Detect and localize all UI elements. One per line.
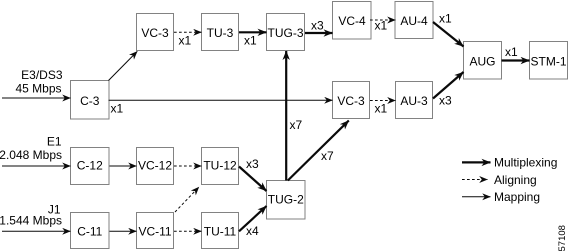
wire VC-3 to TU-3 dashed (aligning)	[174, 31, 202, 33]
svg-text:VC-3: VC-3	[337, 94, 365, 108]
box VC-3 top row	[137, 14, 174, 51]
legend multiplexing arrow	[462, 161, 491, 163]
box TUG-2	[267, 181, 306, 220]
svg-text:C-11: C-11	[77, 225, 102, 239]
svg-text:AUG: AUG	[469, 55, 495, 69]
svg-text:Aligning: Aligning	[494, 173, 537, 187]
box TUG-3	[267, 14, 305, 51]
svg-text:TU-12: TU-12	[203, 159, 237, 173]
svg-text:x7: x7	[321, 149, 334, 163]
box C-3	[71, 81, 110, 120]
box AUG	[464, 42, 502, 80]
svg-text:45 Mbps: 45 Mbps	[15, 82, 61, 96]
svg-text:x1: x1	[439, 12, 452, 26]
svg-text:x1: x1	[505, 45, 518, 59]
wire VC-11 to TU-11 dashed (aligning)	[174, 230, 202, 232]
svg-text:TU-3: TU-3	[207, 26, 234, 40]
wire E1 input arrow into C-12 (mapping)	[2, 165, 71, 167]
box TU-3	[202, 14, 239, 51]
box TU-12	[202, 148, 239, 185]
svg-text:TU-11: TU-11	[204, 225, 237, 239]
svg-text:C-12: C-12	[77, 159, 103, 173]
box C-11	[71, 213, 110, 249]
svg-text:AU-4: AU-4	[400, 14, 428, 28]
box VC-11	[137, 213, 174, 249]
svg-text:C-3: C-3	[80, 94, 100, 108]
svg-text:VC-3: VC-3	[141, 26, 169, 40]
wire C-3 to VC-3 top diagonal (mapping)	[109, 51, 138, 80]
wire C-11 to VC-11 (mapping)	[110, 230, 137, 232]
svg-text:TUG-3: TUG-3	[268, 26, 304, 40]
box TU-11	[202, 213, 239, 249]
svg-text:Multiplexing: Multiplexing	[494, 156, 557, 170]
svg-text:E3/DS3: E3/DS3	[21, 68, 63, 82]
legend aligning arrow	[462, 179, 488, 181]
svg-text:x1: x1	[111, 102, 124, 116]
wire TU-12 to TUG-2 thick diagonal (multiplexing)	[239, 167, 267, 192]
svg-text:2.048 Mbps: 2.048 Mbps	[0, 148, 62, 162]
svg-text:1.544 Mbps: 1.544 Mbps	[0, 214, 62, 228]
legend mapping arrow	[462, 196, 491, 198]
svg-text:VC-11: VC-11	[138, 225, 171, 239]
wire J1 input arrow into C-11 (mapping)	[2, 230, 71, 232]
wire VC-4 to AU-4 dashed (aligning)	[370, 19, 396, 21]
wire C-3 to VC-3 second row horizontal (mapping)	[109, 99, 333, 101]
wire VC-12 to TU-12 dashed (aligning)	[174, 165, 202, 167]
box VC-12	[137, 148, 174, 185]
svg-text:x3: x3	[311, 19, 324, 33]
wire AUG to STM-1 thick (multiplexing)	[502, 59, 530, 61]
box C-12	[71, 148, 110, 185]
wire C-12 to VC-12 (mapping)	[110, 165, 137, 167]
svg-text:x1: x1	[375, 19, 388, 33]
wire AU-4 to AUG thick diagonal (multiplexing)	[433, 22, 464, 47]
svg-text:x4: x4	[246, 224, 259, 238]
wire E3/DS3 input arrow into C-3 (mapping)	[2, 97, 71, 99]
wire TU-11 to TUG-2 thick diagonal (multiplexing)	[239, 206, 267, 231]
svg-text:x7: x7	[290, 118, 303, 132]
svg-text:E1: E1	[47, 135, 62, 149]
svg-text:x3: x3	[246, 157, 259, 171]
svg-text:Mapping: Mapping	[494, 190, 540, 204]
svg-text:x3: x3	[439, 94, 452, 108]
wire VC-11 to TU-12 diagonal dashed (aligning)	[175, 187, 199, 212]
svg-text:57108: 57108	[557, 225, 568, 251]
box VC-4	[333, 2, 372, 40]
svg-text:x1: x1	[179, 34, 192, 48]
svg-text:STM-1: STM-1	[531, 55, 567, 69]
wire TU-3 to TUG-3 thick (multiplexing)	[239, 31, 267, 33]
wire VC-3 to AU-3 dashed (aligning)	[370, 100, 396, 102]
box AU-4	[395, 2, 433, 39]
svg-text:TUG-2: TUG-2	[268, 192, 304, 206]
svg-text:x1: x1	[244, 34, 257, 48]
box STM-1	[530, 42, 568, 80]
wire TUG-2 to VC-3 second row thick diagonal (multiplexing)	[288, 121, 349, 181]
wire AU-3 to AUG thick diagonal (multiplexing)	[433, 72, 464, 99]
wire TUG-2 to TUG-3 thick vertical (multiplexing)	[285, 51, 287, 181]
svg-text:AU-3: AU-3	[400, 94, 428, 108]
box AU-3	[396, 82, 433, 119]
box VC-3 second row	[333, 82, 370, 119]
svg-text:VC-12: VC-12	[138, 159, 172, 173]
svg-text:VC-4: VC-4	[338, 14, 366, 28]
wire TUG-3 to VC-4 thick (multiplexing)	[305, 32, 333, 34]
svg-text:x1: x1	[375, 102, 388, 116]
